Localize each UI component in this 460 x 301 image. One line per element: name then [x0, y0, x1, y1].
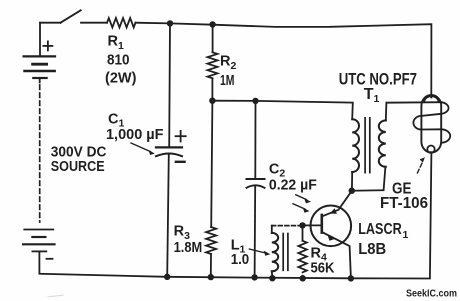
svg-text:LASCR: LASCR: [358, 221, 402, 238]
svg-text:300V DC: 300V DC: [51, 144, 107, 160]
svg-text:L8B: L8B: [358, 241, 386, 258]
svg-text:FT-106: FT-106: [380, 195, 428, 212]
svg-text:UTC NO.PF7: UTC NO.PF7: [339, 70, 417, 88]
svg-text:1: 1: [403, 229, 409, 241]
svg-text:R2: R2: [220, 53, 236, 71]
svg-text:(2W): (2W): [105, 70, 137, 86]
svg-text:SOURCE: SOURCE: [51, 159, 105, 175]
svg-text:0.22 µF: 0.22 µF: [269, 177, 317, 193]
svg-text:T1: T1: [364, 86, 380, 105]
svg-text:1M: 1M: [220, 73, 235, 89]
svg-text:R1: R1: [108, 34, 124, 52]
svg-text:1.0: 1.0: [231, 252, 250, 268]
svg-text:1.8M: 1.8M: [174, 240, 203, 256]
svg-text:1,000 µF: 1,000 µF: [106, 127, 164, 143]
svg-text:810: 810: [107, 52, 130, 68]
svg-text:SeekIC.com: SeekIC.com: [406, 288, 457, 299]
svg-text:56K: 56K: [311, 260, 335, 276]
